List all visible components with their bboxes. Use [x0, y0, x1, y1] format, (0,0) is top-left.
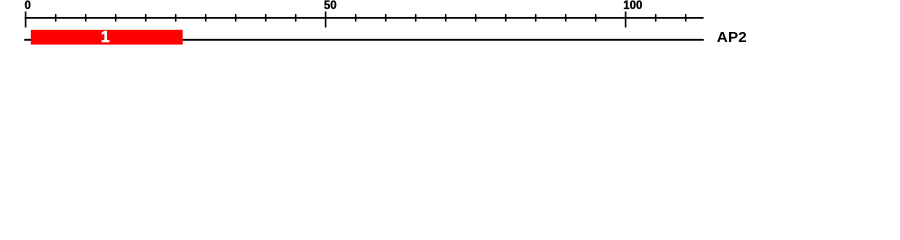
svg-text:100: 100 [623, 0, 642, 12]
svg-text:1: 1 [101, 29, 110, 46]
svg-text:50: 50 [324, 0, 337, 12]
svg-text:0: 0 [25, 0, 31, 12]
svg-text:AP2: AP2 [717, 29, 747, 46]
